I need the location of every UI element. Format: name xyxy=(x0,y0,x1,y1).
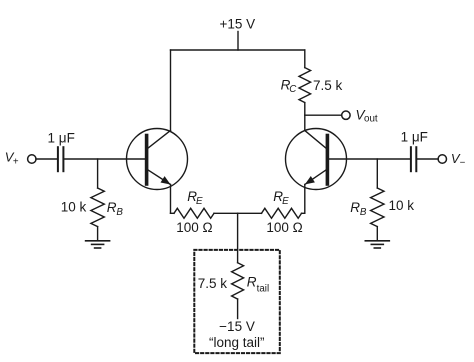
wire Q2 emitter xyxy=(304,185,306,214)
svg-text:“long tail”: “long tail” xyxy=(209,335,265,350)
wire Q1 emitter xyxy=(170,185,172,214)
node V+ input terminal xyxy=(5,149,36,167)
ground (right) xyxy=(365,241,389,248)
resistor RE (left) 100 ohm xyxy=(171,189,215,235)
resistor RC 7.5 k xyxy=(281,68,343,103)
wire Q1 collector to rail xyxy=(170,50,172,131)
svg-text:tail: tail xyxy=(257,284,270,295)
transistor Q1 (left NPN) xyxy=(127,129,188,190)
svg-text:7.5 k: 7.5 k xyxy=(313,78,343,93)
wire RE left to tail node xyxy=(214,212,238,214)
wire RC to Q2 collector xyxy=(304,103,306,131)
svg-text:100 Ω: 100 Ω xyxy=(176,220,212,235)
wire V+ terminal to C1 xyxy=(36,158,57,160)
power +15 V xyxy=(219,17,255,51)
svg-text:B: B xyxy=(116,207,123,218)
resistor RB (right) 10 k xyxy=(350,159,414,240)
svg-text:E: E xyxy=(282,196,289,207)
capacitor C1 1 uF xyxy=(48,130,75,171)
wire top supply rail xyxy=(171,49,305,51)
svg-text:+15 V: +15 V xyxy=(219,17,255,32)
ground (left) xyxy=(86,241,110,248)
capacitor C2 1 uF xyxy=(401,130,428,172)
svg-text:B: B xyxy=(360,207,367,218)
wire tail node to RE right xyxy=(238,212,262,214)
svg-text:R: R xyxy=(350,200,360,215)
svg-text:+: + xyxy=(13,157,19,168)
wire C1 to Q1 base xyxy=(65,158,145,160)
svg-text:R: R xyxy=(107,200,117,215)
svg-text:7.5 k: 7.5 k xyxy=(198,276,228,291)
node V- input terminal xyxy=(438,151,466,168)
svg-text:10 k: 10 k xyxy=(61,200,87,215)
svg-text:1 μF: 1 μF xyxy=(401,130,428,145)
node Vout tap xyxy=(305,107,378,124)
svg-text:1 μF: 1 μF xyxy=(48,130,75,145)
resistor RE (right) 100 ohm xyxy=(262,189,305,235)
resistor RB (left) 10 k xyxy=(61,159,124,240)
svg-text:−: − xyxy=(460,157,466,168)
svg-text:out: out xyxy=(364,113,378,124)
resistor Rtail 7.5 k xyxy=(198,263,269,299)
svg-text:R: R xyxy=(247,275,257,290)
wire rail to RC xyxy=(304,50,306,68)
transistor Q2 (right NPN, mirrored) xyxy=(286,129,347,190)
svg-text:E: E xyxy=(196,196,203,207)
wire Rtail to -15 V xyxy=(237,299,239,319)
wire Q2 base to right node xyxy=(329,158,409,160)
svg-text:100 Ω: 100 Ω xyxy=(266,220,302,235)
svg-text:−15 V: −15 V xyxy=(219,319,255,334)
svg-text:C: C xyxy=(289,84,297,95)
wire C2 to V- terminal xyxy=(418,158,438,160)
long tail dashed box xyxy=(194,250,279,353)
svg-text:10 k: 10 k xyxy=(389,198,415,213)
wire tail node down xyxy=(237,213,239,262)
